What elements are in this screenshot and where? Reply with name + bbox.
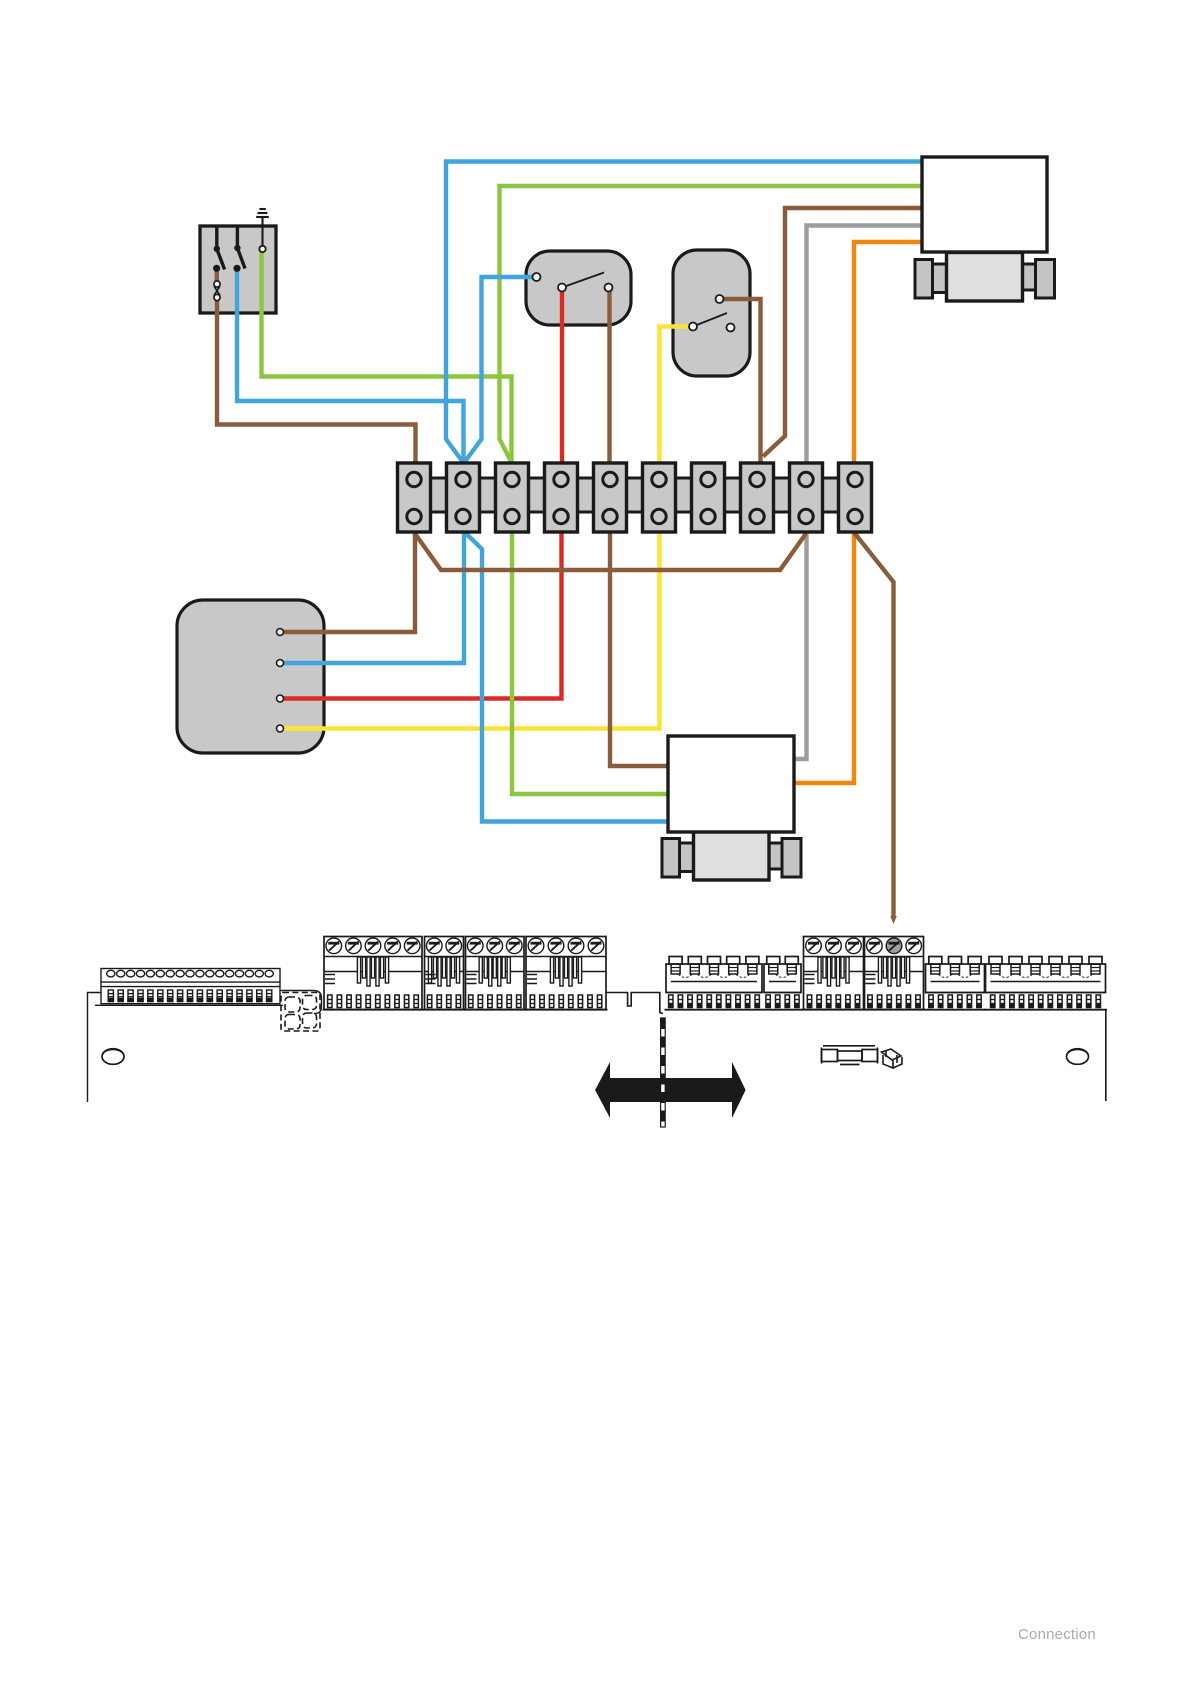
svg-text:Connection: Connection [1018, 1626, 1096, 1643]
